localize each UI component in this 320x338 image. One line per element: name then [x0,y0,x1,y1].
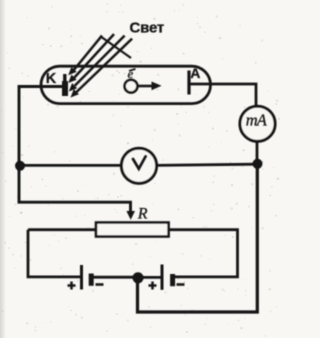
svg-text:R: R [137,205,148,222]
svg-text:Свет: Свет [130,19,165,36]
svg-text:e: e [128,66,134,81]
svg-text:K: K [46,71,57,87]
svg-text:A: A [190,65,200,81]
svg-text:mA: mA [246,111,268,130]
